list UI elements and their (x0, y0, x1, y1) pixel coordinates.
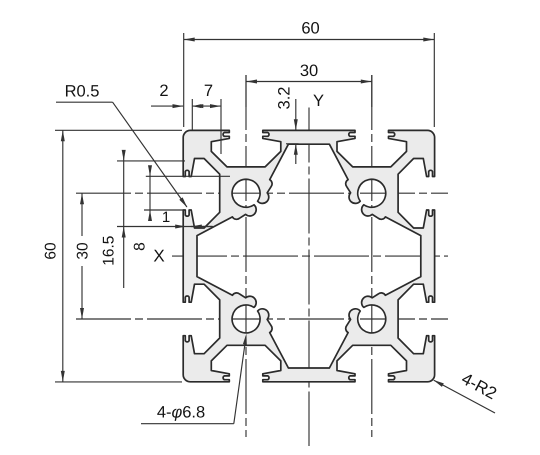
dimension 8 slot opening (146, 175, 230, 177)
centerline left slot column (245, 75, 247, 437)
leader R0.5 slit radius (56, 101, 113, 103)
svg-text:1: 1 (162, 209, 170, 226)
centerline lower slot row (76, 318, 448, 320)
svg-text:4-φ6.8: 4-φ6.8 (157, 404, 205, 422)
leader 4-R2 corner radius (434, 380, 495, 413)
svg-text:2: 2 (159, 82, 168, 100)
dimension 7 (220, 99, 222, 154)
dimension 60 left (55, 129, 182, 131)
dimension 30 top (245, 75, 247, 107)
dimension 1 slit width (175, 225, 186, 229)
dimension 30 left (81, 193, 83, 236)
svg-text:30: 30 (75, 242, 92, 260)
centerline right slot column (371, 75, 373, 437)
svg-text:3.2: 3.2 (276, 87, 294, 110)
leader 4-dia6.8 core holes (141, 423, 234, 425)
svg-text:Y: Y (313, 92, 324, 110)
centerline upper slot row (76, 192, 448, 194)
svg-text:30: 30 (300, 62, 318, 80)
svg-text:60: 60 (301, 20, 319, 38)
centerline Y axis (308, 108, 310, 447)
dimension 3.2 wall thickness (295, 99, 297, 130)
extrusion profile cross-section (183, 130, 434, 381)
dimension 2 corner wall (191, 99, 193, 130)
centerline X axis (172, 255, 448, 257)
dimension 60 top (183, 33, 185, 127)
svg-text:7: 7 (204, 82, 213, 100)
svg-text:R0.5: R0.5 (65, 83, 100, 101)
svg-text:8: 8 (132, 242, 149, 251)
dimension 16.5 slot interior (117, 160, 185, 162)
svg-text:X: X (153, 247, 164, 266)
svg-text:16.5: 16.5 (101, 236, 118, 266)
svg-text:60: 60 (43, 242, 60, 260)
